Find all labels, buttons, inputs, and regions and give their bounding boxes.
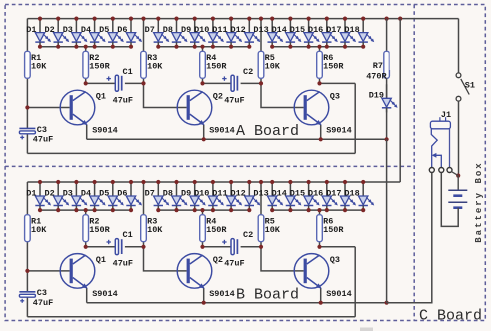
wire R7 to D19 — [386, 78, 388, 98]
LED D8B — [172, 182, 188, 210]
svg-text:S9014: S9014 — [209, 289, 235, 299]
svg-text:47uF: 47uF — [113, 259, 133, 269]
capacitor C1 (47uF) — [107, 239, 122, 255]
svg-text:D16: D16 — [308, 25, 323, 35]
wire A base-res bottom x=143.5 — [143, 78, 145, 83]
svg-text:D9: D9 — [181, 188, 191, 198]
svg-text:D5: D5 — [99, 25, 109, 35]
svg-text:C3: C3 — [37, 125, 47, 135]
switch S1 — [456, 73, 469, 101]
stray caption fragment at bottom edge — [360, 328, 373, 331]
svg-text:D11: D11 — [212, 25, 227, 35]
wire B Q2 collector to C2 — [203, 246, 232, 248]
svg-text:D4: D4 — [81, 25, 91, 35]
svg-text:D4: D4 — [81, 188, 91, 198]
label R1 value — [31, 216, 47, 235]
LED D18B — [359, 182, 375, 210]
LED D13A — [268, 19, 284, 47]
wire B-board R stub group 3 — [319, 210, 321, 215]
wire A-board R stub group 3 — [319, 47, 321, 52]
resistor R3 (10K) — [141, 51, 147, 78]
wire A Q1 collector to C1 — [86, 82, 116, 84]
svg-text:D3: D3 — [63, 25, 73, 35]
svg-text:S9014: S9014 — [92, 289, 118, 299]
LED D9B — [190, 182, 206, 210]
LED D16B — [322, 182, 338, 210]
transistor Q3 (S9014 NPN) — [294, 254, 329, 289]
svg-text:D19: D19 — [369, 90, 384, 100]
LED D5A — [108, 19, 124, 47]
wire B Q2 base — [144, 247, 187, 271]
svg-text:D11: D11 — [212, 188, 227, 198]
LED D14B — [286, 182, 302, 210]
svg-text:Q3: Q3 — [330, 92, 340, 102]
svg-text:D17: D17 — [326, 188, 341, 198]
J1 pin 1 terminal — [429, 168, 434, 173]
svg-text:10K: 10K — [31, 225, 47, 235]
resistor R6 (150R) — [317, 215, 323, 242]
svg-text:D9: D9 — [181, 25, 191, 35]
svg-text:47uF: 47uF — [113, 95, 133, 105]
transistor Q3 (S9014 NPN) — [294, 90, 329, 125]
wire B Q1 base — [27, 270, 69, 272]
LED D14A — [286, 19, 302, 47]
svg-text:C1: C1 — [123, 67, 133, 77]
wire B-board left drop to R1 — [26, 182, 28, 215]
wire A base-res bottom x=261 — [260, 78, 262, 83]
junction dot A-board Q1 base node — [25, 105, 29, 109]
wire A-board left drop to R1 — [26, 19, 28, 52]
capacitor C2 (47uF) — [222, 239, 237, 255]
resistor R2 (150R) — [83, 215, 89, 242]
LED D17A — [340, 19, 356, 47]
svg-text:10K: 10K — [265, 225, 281, 235]
wire collector drop x=85.7 B — [85, 242, 87, 247]
svg-text:Q1: Q1 — [96, 255, 106, 265]
LED D6B — [126, 182, 142, 210]
LED D9A — [190, 19, 206, 47]
LED D17B — [340, 182, 356, 210]
junction dots B-board emitter rail — [202, 301, 389, 305]
LED D4B — [90, 182, 106, 210]
svg-text:C3: C3 — [37, 288, 47, 298]
resistor R4 (150R) — [200, 215, 206, 242]
LED D11B — [226, 182, 242, 210]
wire A C1 to R3 node — [125, 82, 144, 84]
svg-text:D7: D7 — [145, 188, 155, 198]
svg-text:D13: D13 — [253, 25, 268, 35]
wire B base-res stub x=143.5 — [143, 182, 145, 215]
wire B C1 to R3 node — [125, 246, 144, 248]
junction dot B-board Q1 base node — [25, 269, 29, 273]
LED D15A — [304, 19, 320, 47]
svg-text:D14: D14 — [272, 25, 287, 35]
transistor Q1 (S9014 NPN) — [60, 254, 95, 289]
wire collector drop x=202.5 B — [202, 242, 204, 247]
wire A emitter drop x=203.7 — [203, 125, 205, 140]
svg-text:D18: D18 — [344, 188, 359, 198]
LED D5B — [108, 182, 124, 210]
J1 spring contact (zigzag) to pin 1 — [431, 129, 437, 168]
svg-text:D2: D2 — [44, 188, 54, 198]
svg-text:Q3: Q3 — [330, 255, 340, 265]
svg-text:D6: D6 — [117, 188, 127, 198]
svg-text:A Board: A Board — [236, 123, 299, 140]
wire A Q2 base — [144, 83, 187, 107]
svg-text:10K: 10K — [147, 62, 163, 72]
svg-text:S9014: S9014 — [326, 125, 352, 135]
junction dot D19/emitter rail — [385, 137, 389, 141]
svg-text:150R: 150R — [323, 225, 344, 235]
junction dots B-board collector nodes — [84, 245, 322, 249]
wire R7/D19 branch top — [386, 19, 388, 52]
svg-text:J1: J1 — [441, 110, 451, 120]
svg-text:D10: D10 — [194, 25, 209, 35]
junction dots A-board top rail — [38, 17, 402, 21]
wire A-board R stub group 1 — [85, 47, 87, 52]
svg-text:D2: D2 — [44, 25, 54, 35]
LED D4A — [90, 19, 106, 47]
resistor R6 (150R) — [317, 51, 323, 78]
svg-text:C2: C2 — [243, 230, 253, 240]
svg-text:D6: D6 — [117, 25, 127, 35]
svg-text:47uF: 47uF — [33, 298, 53, 308]
wire B-board V+ feed from top rail — [399, 19, 401, 182]
wire pin 1 to ground rail — [387, 173, 432, 303]
capacitor C2 (47uF) — [222, 75, 237, 91]
wire B base-res stub x=261 — [260, 182, 262, 215]
LED D10B — [208, 182, 224, 210]
LED D12B — [245, 182, 261, 210]
svg-text:10K: 10K — [31, 62, 47, 72]
svg-text:470R: 470R — [366, 71, 387, 81]
svg-text:D15: D15 — [290, 25, 305, 35]
label R2 value — [89, 216, 110, 235]
LED D3B — [72, 182, 88, 210]
svg-text:150R: 150R — [89, 62, 110, 72]
LED D18A — [359, 19, 375, 47]
wire B base-res bottom x=143.5 — [143, 242, 145, 247]
wire B-board LED group 3 cathode rail — [272, 209, 363, 211]
wire A base-res stub x=143.5 — [143, 19, 145, 52]
svg-text:D17: D17 — [326, 25, 341, 35]
svg-text:D10: D10 — [194, 188, 209, 198]
svg-text:R7: R7 — [373, 61, 383, 71]
LED D3A — [72, 19, 88, 47]
svg-text:Q2: Q2 — [213, 255, 223, 265]
wire B-board LED group 1 cathode rail — [40, 209, 131, 211]
resistor R5 (10K) — [258, 215, 264, 242]
label R6 value — [323, 216, 344, 235]
svg-text:S9014: S9014 — [92, 125, 118, 135]
wire pin 3 to battery + node — [451, 171, 458, 175]
svg-text:D18: D18 — [344, 25, 359, 35]
wire A-board LED group 3 cathode rail — [272, 46, 363, 48]
power jack J1 — [430, 117, 450, 129]
wire D19 cathode to emitter rail — [386, 108, 388, 140]
wire A-board V+ top rail — [27, 18, 458, 20]
LED D1A — [35, 19, 51, 47]
wire A-board LED group 1 cathode rail — [40, 46, 131, 48]
junction dots A-board collector nodes — [84, 81, 322, 85]
svg-text:D14: D14 — [272, 188, 287, 198]
resistor R3 (10K) — [141, 215, 147, 242]
LED D7B — [154, 182, 170, 210]
fix R7 labels (right aligned) — [390, 52, 412, 70]
wire B R1 bottom to Q1 base node — [26, 242, 28, 271]
svg-text:Battery Box: Battery Box — [474, 161, 484, 242]
LED D8A — [172, 19, 188, 47]
label R1 value — [31, 53, 47, 72]
resistor R1 (10K) — [25, 51, 31, 78]
capacitor C1 (47uF) — [107, 75, 122, 91]
wire B loop drop — [354, 247, 356, 317]
dashed C-board left edge — [413, 5, 415, 321]
transistor Q2 (S9014 NPN) — [177, 254, 212, 289]
wire A Q1 base — [27, 107, 69, 109]
label R4 value — [206, 216, 227, 235]
wire B base-res bottom x=261 — [260, 242, 262, 247]
wire A base-res stub x=261 — [260, 19, 262, 52]
transistor Q1 (S9014 NPN) — [60, 90, 95, 125]
LED D10A — [208, 19, 224, 47]
dashed separator between A and B boards — [5, 165, 414, 167]
svg-text:D7: D7 — [145, 25, 155, 35]
junction dots A-board cathode rails — [38, 45, 365, 49]
svg-text:47uF: 47uF — [224, 259, 244, 269]
wire A C2 to R5 node — [241, 82, 261, 84]
label R3 value — [147, 216, 163, 235]
wire A loop bottom rail to C3 — [27, 152, 355, 154]
wire B loop bottom rail to C3 — [27, 316, 355, 318]
wire A C3 bottom lead — [26, 134, 28, 154]
label R7 value — [390, 53, 411, 72]
label R5 value — [265, 53, 281, 72]
svg-text:C Board: C Board — [419, 308, 482, 325]
LED D1B — [35, 182, 51, 210]
svg-text:D8: D8 — [163, 25, 173, 35]
LED D2B — [54, 182, 70, 210]
svg-text:D1: D1 — [26, 188, 36, 198]
resistor R2 (150R) — [83, 51, 89, 78]
LED D19 — [382, 84, 398, 112]
wire B Q3 base — [261, 247, 304, 271]
resistor R7 (470R) — [384, 51, 390, 78]
wire B C3 bottom lead — [26, 297, 28, 317]
svg-text:150R: 150R — [206, 225, 227, 235]
wire A R1 bottom to Q1 base node — [26, 78, 28, 107]
svg-text:S9014: S9014 — [209, 125, 235, 135]
wire B-board LED group 2 cathode rail — [158, 209, 249, 211]
svg-text:D16: D16 — [308, 188, 323, 198]
wire A emitter drop x=320.7 — [320, 125, 322, 140]
svg-text:47uF: 47uF — [33, 135, 53, 145]
capacitor C3 (47uF) — [19, 128, 35, 139]
wire A emitter drop x=86.7 — [86, 125, 88, 140]
svg-text:10K: 10K — [265, 62, 281, 72]
wire B-board R stub group 2 — [202, 210, 204, 215]
J1 pin 3 terminal — [447, 168, 452, 173]
capacitor C3 (47uF) — [19, 292, 35, 303]
svg-text:150R: 150R — [323, 62, 344, 72]
wire A emitter rail — [87, 138, 387, 140]
wire B C2 to R5 node — [241, 246, 261, 248]
svg-text:D8: D8 — [163, 188, 173, 198]
resistor R1 (10K) — [25, 215, 31, 242]
label R6 value — [323, 53, 344, 72]
LED D13B — [268, 182, 284, 210]
svg-text:150R: 150R — [89, 225, 110, 235]
wire B emitter drop x=203.7 — [203, 288, 205, 303]
wire collector drop x=319.5 A — [319, 78, 321, 83]
svg-text:C2: C2 — [243, 67, 253, 77]
wire B-board V+ top rail — [27, 181, 400, 183]
svg-text:S1: S1 — [465, 81, 475, 91]
svg-text:D13: D13 — [253, 188, 268, 198]
label R4 value — [206, 53, 227, 72]
wire A Q3 collector to loop — [320, 82, 356, 84]
svg-text:Q2: Q2 — [213, 92, 223, 102]
LED D7A — [154, 19, 170, 47]
wire S1 to battery + node — [458, 101, 460, 176]
wire B emitter rail — [87, 302, 432, 304]
svg-text:D15: D15 — [290, 188, 305, 198]
wire J1 sleeve leg to pin 3 — [449, 129, 451, 168]
wire A-board R stub group 2 — [202, 47, 204, 52]
svg-text:Q1: Q1 — [96, 92, 106, 102]
junction dots B-board top rail — [38, 180, 365, 184]
LED D11A — [226, 19, 242, 47]
J1 switch-contact arrow to pin 2 — [432, 153, 442, 168]
wire B Q1 collector to C1 — [86, 246, 116, 248]
LED D12A — [245, 19, 261, 47]
wire battery - to pin 2 — [441, 173, 458, 227]
label R2 value — [89, 53, 110, 72]
wire collector drop x=85.7 A — [85, 78, 87, 83]
transistor Q2 (S9014 NPN) — [177, 90, 212, 125]
svg-text:D3: D3 — [63, 188, 73, 198]
wire A-board LED group 2 cathode rail — [158, 46, 249, 48]
resistor R4 (150R) — [200, 51, 206, 78]
wire collector drop x=202.5 A — [202, 78, 204, 83]
svg-text:D5: D5 — [99, 188, 109, 198]
LED D6A — [126, 19, 142, 47]
wire top rail to S1 — [458, 19, 460, 73]
wire A loop drop — [354, 83, 356, 153]
LED D15B — [304, 182, 320, 210]
junction dots B-board cathode rails — [38, 208, 365, 212]
wire A Q3 base — [261, 83, 304, 107]
wire B-board R stub group 1 — [85, 210, 87, 215]
wire B Q3 collector to loop — [320, 246, 356, 248]
svg-text:D12: D12 — [230, 188, 245, 198]
battery BT1 — [448, 176, 467, 208]
svg-text:47uF: 47uF — [224, 95, 244, 105]
wire A C3 top lead — [26, 108, 28, 129]
LED D16A — [322, 19, 338, 47]
wire A emitter rail drop to B emitter rail — [386, 139, 388, 302]
wire collector drop x=319.5 B — [319, 242, 321, 247]
resistor R5 (10K) — [258, 51, 264, 78]
svg-text:C1: C1 — [123, 230, 133, 240]
label R5 value — [265, 216, 281, 235]
svg-text:D12: D12 — [230, 25, 245, 35]
label R3 value — [147, 53, 163, 72]
wire B C3 top lead — [26, 271, 28, 292]
junction dots A-board emitter rail — [202, 137, 323, 141]
wire B emitter drop x=320.7 — [320, 288, 322, 303]
J1 pin 2 terminal — [439, 168, 444, 173]
junction dot battery + node — [456, 174, 460, 178]
svg-text:B Board: B Board — [236, 286, 299, 303]
svg-text:150R: 150R — [206, 62, 227, 72]
svg-text:10K: 10K — [147, 225, 163, 235]
svg-text:S9014: S9014 — [326, 289, 352, 299]
wire A Q2 collector to C2 — [203, 82, 232, 84]
LED D2A — [54, 19, 70, 47]
svg-text:D1: D1 — [26, 25, 36, 35]
wire B emitter drop x=86.7 — [86, 288, 88, 303]
